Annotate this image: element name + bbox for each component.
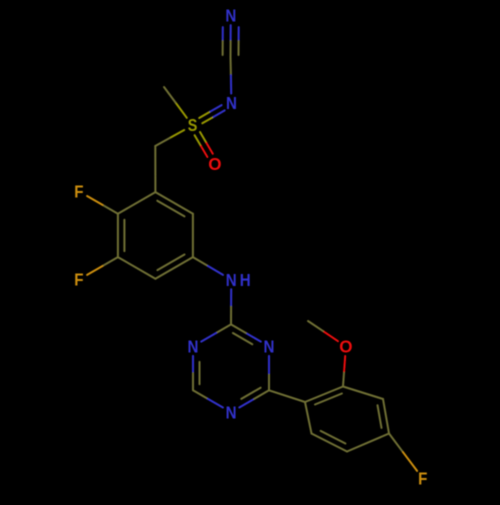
bond phenyl2 P5-P6 double (312, 431, 348, 452)
bond O2-CH3 methoxy (308, 321, 338, 341)
svg-text:F: F (74, 269, 83, 290)
bond ring1 tr-tv double (155, 192, 193, 216)
svg-text:N: N (264, 336, 275, 357)
bond C-NH (193, 257, 223, 275)
bond triazine C4-N3 (268, 356, 270, 390)
svg-text:N: N (226, 402, 237, 423)
svg-text:O: O (208, 153, 221, 174)
bond phenyl2 P2-P3 (343, 387, 383, 400)
bond C4-P1 biaryl (269, 390, 305, 402)
bond triazine N3-C2 double (231, 324, 261, 344)
bond phenyl2 P4-P5 (347, 434, 389, 452)
bond phenyl2 P3-P4 double (378, 399, 390, 434)
bond ring1 tv-tl (118, 192, 155, 214)
svg-text:F: F (418, 468, 427, 489)
bond triazine N5-C4 double (239, 388, 269, 408)
svg-text:F: F (74, 181, 83, 202)
svg-text:N: N (225, 5, 236, 26)
svg-text:S: S (188, 115, 198, 135)
bond C-N single (230, 57, 233, 94)
bond phenyl2 P1-P2 double (305, 387, 343, 405)
bond ring1 bv-br double (155, 255, 193, 279)
svg-text:H: H (240, 270, 251, 291)
bond triazine C6-N5 (193, 390, 223, 407)
bond S-CH3 (164, 87, 187, 118)
bond C-F2 (87, 257, 118, 275)
bond N#C nitrile triple (223, 25, 239, 57)
bond triazine C2-N1 (201, 324, 231, 341)
bond phenyl2 P6-P1 (305, 402, 312, 434)
bond P2-O2 (343, 356, 345, 387)
bond CH2-ring (154, 146, 156, 192)
bond NH-C2 (230, 289, 232, 324)
bond S-CH2 (155, 130, 184, 146)
bond ring1 br-tr (192, 214, 194, 257)
svg-text:N: N (226, 270, 237, 291)
svg-text:N: N (226, 93, 237, 114)
bond ring1 tl-bl double (118, 214, 125, 257)
bond ring1 bl-bv (118, 257, 155, 279)
bond P4-F3 (389, 434, 417, 471)
bond C-F1 (87, 196, 118, 214)
svg-text:O: O (339, 336, 352, 357)
bond triazine N1-C6 double (193, 356, 200, 390)
bond S=O double (195, 132, 213, 157)
svg-text:N: N (188, 336, 199, 357)
bond S=N double (199, 105, 225, 123)
